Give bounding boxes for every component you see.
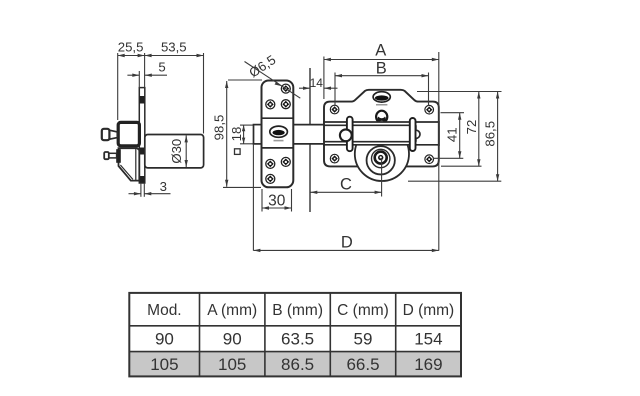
keyhole housing box side bbox=[118, 122, 139, 145]
svg-text:D (mm): D (mm) bbox=[403, 302, 455, 319]
dim 72 bbox=[417, 92, 502, 167]
svg-text:53,5: 53,5 bbox=[161, 40, 187, 55]
header text bbox=[147, 302, 454, 319]
screw hole strike upper-left bbox=[266, 100, 275, 109]
door edge bbox=[309, 68, 311, 212]
svg-text:B: B bbox=[376, 60, 387, 78]
row2 gray background bbox=[129, 352, 461, 377]
dim 3 bbox=[129, 179, 171, 197]
plate outline with raised top bbox=[324, 90, 439, 167]
svg-text:90: 90 bbox=[223, 330, 242, 349]
dim 30 bbox=[262, 189, 292, 212]
svg-text:Ø30: Ø30 bbox=[169, 139, 184, 164]
plate screw holes bbox=[330, 105, 433, 163]
svg-text:90: 90 bbox=[155, 330, 174, 349]
svg-text:59: 59 bbox=[354, 330, 373, 349]
dim 25,5 / 53,5 bbox=[118, 40, 204, 134]
dim C bbox=[310, 158, 381, 197]
handle knob bbox=[340, 129, 352, 141]
screw hole strike top bbox=[281, 84, 290, 93]
svg-text:3: 3 bbox=[160, 179, 167, 194]
svg-text:30: 30 bbox=[268, 193, 286, 210]
bolt right end with notch bbox=[416, 125, 420, 141]
column lines bbox=[199, 293, 201, 377]
svg-text:86.5: 86.5 bbox=[281, 355, 314, 374]
bolt bar in gap bbox=[293, 125, 325, 144]
svg-text:63.5: 63.5 bbox=[281, 330, 314, 349]
dim 86,5 bbox=[408, 92, 501, 182]
divider lines bbox=[262, 117, 294, 119]
svg-text:105: 105 bbox=[150, 355, 178, 374]
svg-text:14: 14 bbox=[310, 76, 324, 90]
dim B bbox=[335, 60, 429, 106]
lower pin bbox=[104, 149, 121, 163]
svg-text:72: 72 bbox=[464, 120, 479, 135]
logo oval plate bbox=[373, 92, 390, 106]
screw hole plate top-left bbox=[330, 105, 339, 114]
dim Ø30 bbox=[169, 135, 188, 167]
keyhole bbox=[376, 111, 387, 123]
logo oval strike bbox=[270, 126, 288, 141]
plate edge over band right bbox=[438, 121, 440, 146]
mounting plate side bbox=[139, 88, 145, 183]
screw hole plate bottom-right bbox=[425, 155, 434, 164]
svg-text:41: 41 bbox=[444, 127, 459, 142]
bolt left end (thrown) bbox=[254, 125, 263, 144]
svg-text:18: 18 bbox=[229, 127, 244, 142]
bolt track band bbox=[324, 122, 439, 145]
leader Ø6,5 bbox=[245, 52, 301, 98]
outer border bbox=[129, 293, 461, 377]
screw hole strike lower-left bbox=[266, 159, 275, 168]
svg-text:66.5: 66.5 bbox=[346, 355, 379, 374]
svg-text:169: 169 bbox=[414, 355, 442, 374]
row 90 bbox=[155, 330, 443, 349]
svg-text:C: C bbox=[340, 175, 352, 193]
left guide staple bbox=[347, 117, 353, 152]
dim A bbox=[324, 42, 439, 251]
row lines bbox=[129, 325, 461, 327]
inner diagonal line bbox=[120, 165, 132, 179]
strike screw holes bbox=[266, 84, 291, 183]
screw hole strike upper-right bbox=[281, 100, 290, 109]
svg-text:154: 154 bbox=[414, 330, 442, 349]
dim square18 bbox=[229, 125, 255, 154]
svg-text:A (mm): A (mm) bbox=[207, 302, 257, 319]
svg-text:Mod.: Mod. bbox=[147, 302, 181, 319]
rosette bbox=[355, 127, 409, 181]
plate edge over band left bbox=[323, 121, 325, 146]
dim D bbox=[253, 144, 438, 252]
screw hole strike lower-right bbox=[281, 157, 290, 166]
row 105 bbox=[150, 355, 442, 374]
dim 14 bbox=[299, 76, 338, 90]
screw hole strike bottom bbox=[266, 174, 275, 183]
dim 41 bbox=[433, 113, 464, 159]
strike plate body bbox=[262, 81, 294, 188]
thumbturn knob bbox=[102, 129, 118, 140]
svg-text:A: A bbox=[375, 42, 386, 60]
svg-text:86,5: 86,5 bbox=[482, 121, 497, 147]
dim 5 bbox=[127, 60, 167, 88]
svg-text:105: 105 bbox=[218, 355, 246, 374]
svg-text:D: D bbox=[341, 233, 353, 251]
dim 98,5 bbox=[211, 80, 262, 187]
bolt bar bbox=[324, 125, 416, 141]
svg-text:C (mm): C (mm) bbox=[337, 302, 389, 319]
lower housing side bbox=[119, 148, 140, 180]
right guide staple bbox=[410, 118, 416, 151]
screw hole plate top-right bbox=[425, 105, 434, 114]
cylinder body side bbox=[145, 135, 204, 168]
svg-text:5: 5 bbox=[158, 60, 165, 75]
svg-text:B (mm): B (mm) bbox=[272, 302, 323, 319]
svg-text:98,5: 98,5 bbox=[211, 115, 226, 141]
svg-text:25,5: 25,5 bbox=[118, 40, 144, 55]
screw hole plate bottom-left bbox=[330, 154, 339, 163]
